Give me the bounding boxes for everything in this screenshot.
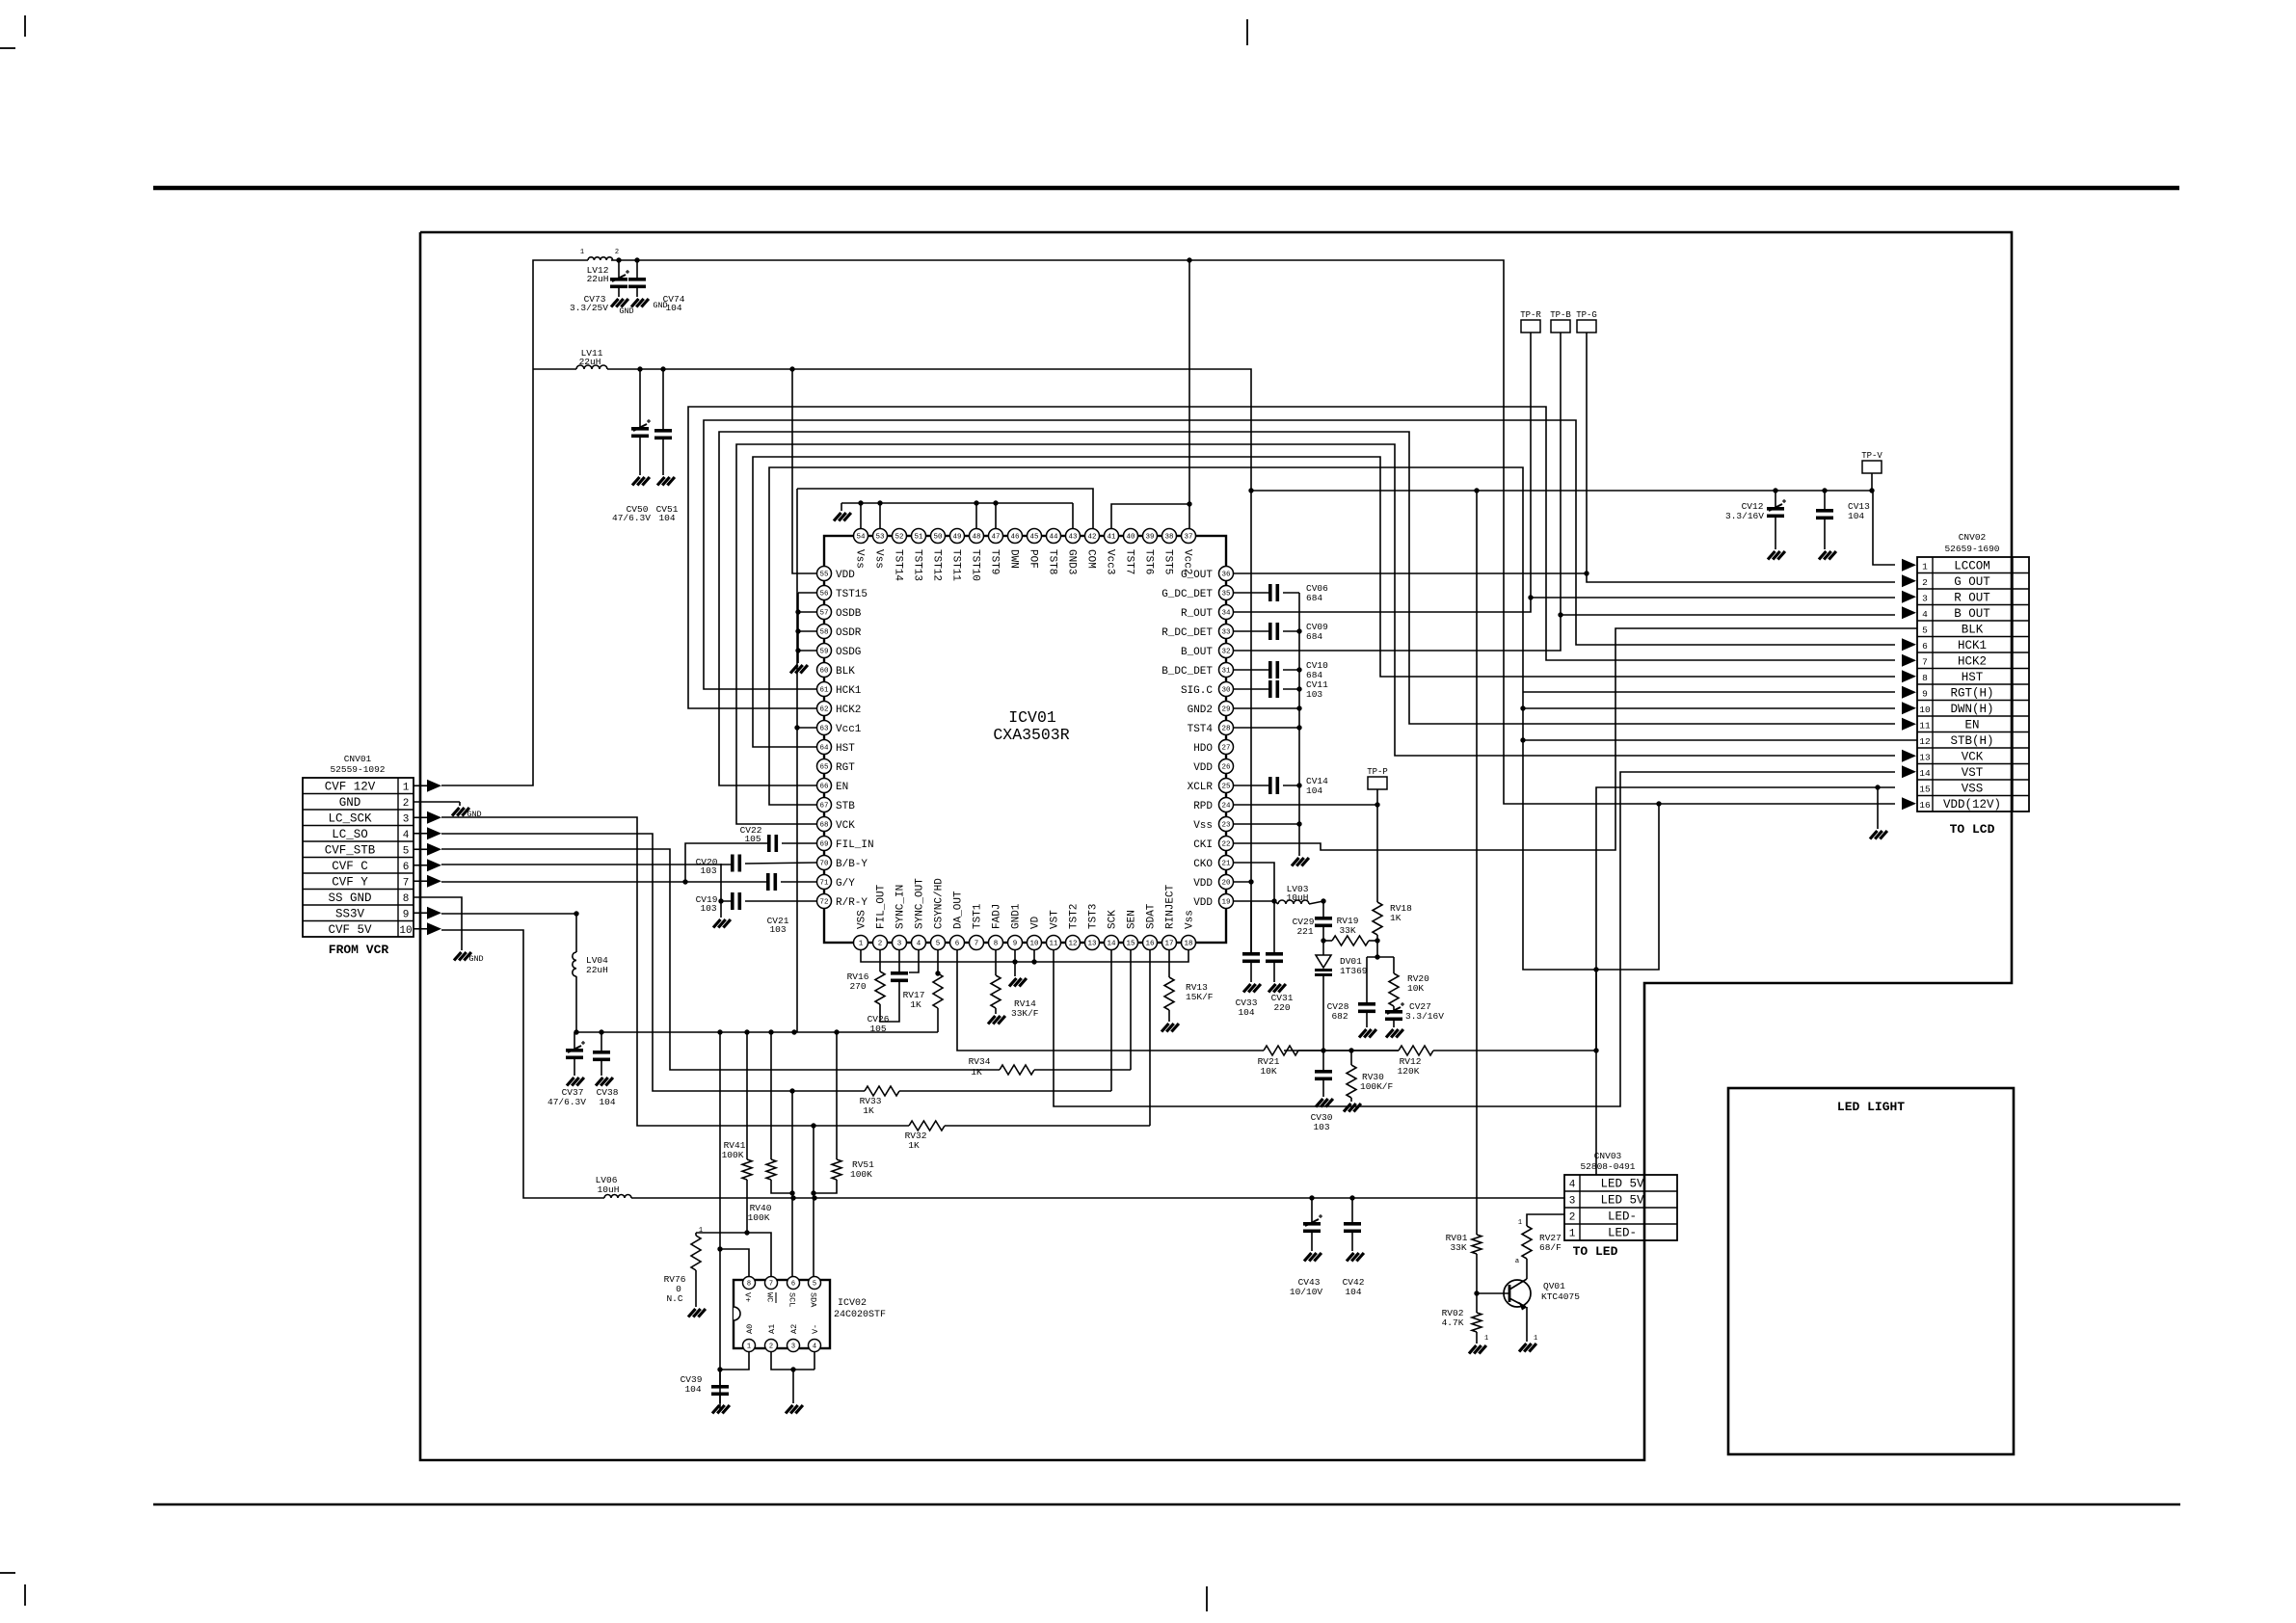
- svg-text:1K: 1K: [863, 1105, 874, 1116]
- svg-text:CSYNC/HD: CSYNC/HD: [934, 878, 946, 929]
- svg-text:ICV02: ICV02: [838, 1298, 867, 1309]
- svg-text:12: 12: [1068, 941, 1077, 948]
- wire VDD pin20: [1234, 881, 1251, 883]
- svg-text:OSDG: OSDG: [836, 647, 861, 658]
- ground TST15 group: [790, 665, 798, 674]
- svg-text:GND: GND: [653, 301, 667, 310]
- svg-text:SCL: SCL: [788, 1292, 797, 1307]
- wire HCK2 pin62 bus: [688, 407, 1895, 708]
- svg-text:TP-V: TP-V: [1861, 451, 1882, 461]
- svg-text:16: 16: [1919, 800, 1931, 811]
- svg-text:103: 103: [700, 903, 716, 914]
- svg-text:1: 1: [1484, 1335, 1488, 1343]
- svg-text:STB: STB: [836, 801, 855, 812]
- svg-text:V-: V-: [811, 1324, 820, 1334]
- wire CVF C to B/B-Y and capacitor CV20 103: [441, 864, 731, 865]
- resistor RV13 15K/F: [1168, 950, 1170, 977]
- svg-text:3: 3: [403, 813, 410, 825]
- svg-text:52659-1690: 52659-1690: [1944, 544, 1999, 554]
- svg-text:B/B-Y: B/B-Y: [836, 859, 868, 870]
- wire CNV01 SS GND pin8 to ground: [414, 897, 462, 950]
- svg-text:VST: VST: [1050, 910, 1061, 929]
- registration tick top-center: [1246, 19, 1248, 45]
- svg-text:POF: POF: [1028, 549, 1039, 569]
- main schematic boundary box: [420, 232, 2012, 1460]
- svg-text:57: 57: [819, 610, 828, 618]
- svg-text:3.3/16V: 3.3/16V: [1725, 511, 1764, 521]
- wire Vcc1 pin63 column: [797, 489, 816, 728]
- svg-text:SYNC_OUT: SYNC_OUT: [915, 878, 926, 929]
- top rule line: [153, 186, 2179, 191]
- resistor RV30 100K/F: [1350, 1051, 1352, 1065]
- svg-text:10: 10: [1919, 705, 1931, 715]
- svg-text:1T369: 1T369: [1340, 966, 1368, 976]
- svg-text:VSS: VSS: [857, 910, 868, 929]
- svg-text:G/Y: G/Y: [836, 878, 855, 890]
- svg-text:LC_SCK: LC_SCK: [328, 811, 372, 825]
- svg-text:DWN(H): DWN(H): [1950, 703, 1993, 716]
- svg-text:A0: A0: [745, 1324, 755, 1334]
- svg-text:RINJECT: RINJECT: [1165, 884, 1177, 929]
- svg-text:SEN: SEN: [1127, 910, 1138, 929]
- svg-text:COM: COM: [1085, 549, 1097, 569]
- svg-text:4: 4: [813, 1344, 816, 1351]
- inductor LV12: [588, 257, 613, 260]
- resistor RV27 68/F: [1526, 1259, 1528, 1279]
- svg-text:Vcc3: Vcc3: [1105, 549, 1116, 574]
- svg-text:ICV01: ICV01: [1008, 708, 1056, 727]
- wire 3.3V rail LV11 net: [533, 368, 576, 370]
- svg-text:SDAT: SDAT: [1146, 903, 1158, 929]
- capacitor CV09 684 R_DC_DET: [1234, 630, 1268, 632]
- svg-text:52808-0491: 52808-0491: [1580, 1161, 1635, 1172]
- svg-text:20: 20: [1221, 880, 1231, 888]
- svg-text:4.7K: 4.7K: [1442, 1317, 1464, 1328]
- svg-text:TST2: TST2: [1069, 904, 1081, 929]
- svg-text:5: 5: [403, 845, 410, 857]
- svg-text:VCK: VCK: [836, 820, 855, 832]
- svg-text:10uH: 10uH: [598, 1184, 620, 1195]
- wire V+ column CVF5V to ICV02: [719, 1032, 721, 1411]
- svg-text:220: 220: [1273, 1002, 1290, 1013]
- svg-text:22: 22: [1221, 841, 1230, 849]
- capacitor CV19 103 and R/R-Y: [721, 864, 731, 901]
- svg-text:55: 55: [819, 572, 829, 579]
- wire 5V bus to CNV03: [631, 1197, 1565, 1199]
- resistor RV18 1K: [1373, 902, 1382, 935]
- diode DV01 1T369: [1322, 941, 1324, 955]
- resistor RV33 1K: [697, 1090, 865, 1092]
- svg-text:66: 66: [819, 784, 829, 791]
- svg-text:48: 48: [972, 534, 980, 542]
- svg-text:15: 15: [1919, 784, 1931, 794]
- svg-text:Vss: Vss: [1185, 910, 1196, 929]
- svg-text:1: 1: [580, 249, 584, 256]
- svg-text:TST13: TST13: [912, 549, 923, 581]
- svg-text:32: 32: [1221, 649, 1230, 656]
- wire HCK1 pin61 bus: [704, 420, 1895, 689]
- svg-text:SCK: SCK: [1108, 910, 1119, 929]
- svg-text:10K: 10K: [1407, 983, 1424, 994]
- svg-text:1: 1: [747, 1344, 751, 1351]
- svg-text:CKI: CKI: [1193, 839, 1213, 851]
- wire LCCOM column to RV01: [1476, 491, 1478, 1235]
- svg-text:4: 4: [403, 830, 410, 841]
- svg-text:RV34: RV34: [969, 1056, 991, 1067]
- svg-text:67: 67: [819, 803, 828, 811]
- svg-text:TST3: TST3: [1088, 904, 1100, 929]
- svg-text:10: 10: [399, 925, 412, 937]
- svg-text:11: 11: [1049, 941, 1058, 948]
- svg-text:VSS: VSS: [1962, 782, 1984, 795]
- svg-text:9: 9: [1922, 688, 1928, 699]
- resistor RV41 100K: [746, 1032, 748, 1159]
- svg-text:1: 1: [859, 941, 864, 948]
- wire VCK pin68 bus: [736, 444, 1895, 824]
- svg-text:104: 104: [665, 303, 681, 313]
- svg-text:24C020STF: 24C020STF: [834, 1310, 886, 1320]
- svg-text:58: 58: [819, 629, 828, 637]
- svg-text:LED LIGHT: LED LIGHT: [1837, 1100, 1905, 1114]
- capacitor CV43 10/10V: [1311, 1198, 1313, 1222]
- svg-text:TST14: TST14: [893, 549, 904, 581]
- IC ICV01 CXA3503R body: [824, 536, 1226, 943]
- svg-text:270: 270: [849, 981, 866, 992]
- wire FIL_IN net and capacitor CV22 105: [782, 842, 816, 844]
- svg-text:A1: A1: [767, 1324, 777, 1334]
- svg-text:7: 7: [1922, 656, 1928, 667]
- svg-text:VDD: VDD: [1193, 878, 1213, 890]
- svg-text:VDD: VDD: [836, 570, 855, 581]
- svg-text:14: 14: [1107, 941, 1116, 948]
- wire ICV02 pin7 WC net: [696, 1233, 771, 1283]
- svg-text:21: 21: [1221, 861, 1231, 868]
- resistor RV01 33K: [1472, 1235, 1482, 1254]
- svg-text:TP-G: TP-G: [1576, 310, 1597, 320]
- svg-text:FROM VCR: FROM VCR: [329, 943, 389, 957]
- wire ICV02 pin1 to CV39 net: [720, 1351, 749, 1370]
- svg-text:G_DC_DET: G_DC_DET: [1161, 589, 1213, 600]
- svg-text:10/10V: 10/10V: [1290, 1287, 1323, 1297]
- svg-text:HST: HST: [836, 743, 855, 755]
- ground RV14: [988, 1016, 996, 1024]
- svg-text:39: 39: [1145, 534, 1154, 542]
- svg-text:OSDR: OSDR: [836, 627, 862, 639]
- wire CKI pin22 to BLK row: [1234, 628, 1917, 850]
- wire SDA column: [813, 1125, 814, 1283]
- svg-text:HDO: HDO: [1193, 743, 1213, 755]
- svg-text:STB(H): STB(H): [1950, 734, 1993, 748]
- svg-text:BLK: BLK: [1962, 623, 1984, 636]
- svg-text:2: 2: [615, 249, 619, 256]
- svg-text:SIG.C: SIG.C: [1181, 685, 1213, 697]
- capacitor CV51: [662, 369, 664, 429]
- svg-text:44: 44: [1049, 534, 1058, 542]
- svg-text:LED 5V: LED 5V: [1600, 1194, 1644, 1208]
- svg-text:QV01: QV01: [1543, 1281, 1565, 1291]
- svg-text:49: 49: [952, 534, 961, 542]
- svg-text:33K/F: 33K/F: [1011, 1008, 1039, 1019]
- svg-text:RPD: RPD: [1193, 801, 1213, 812]
- resistor RV51 100K: [836, 1032, 838, 1159]
- capacitor CV13 104: [1824, 491, 1826, 509]
- svg-text:CVF Y: CVF Y: [332, 875, 368, 889]
- svg-text:LED-: LED-: [1608, 1211, 1637, 1224]
- svg-text:LED 5V: LED 5V: [1600, 1178, 1644, 1191]
- svg-text:43: 43: [1068, 534, 1078, 542]
- svg-text:52: 52: [894, 534, 903, 542]
- capacitor CV42 104: [1351, 1198, 1353, 1222]
- svg-text:52559-1092: 52559-1092: [330, 764, 385, 775]
- svg-text:GND: GND: [468, 954, 483, 964]
- wire RV18 node split: [1367, 956, 1394, 958]
- svg-text:B_OUT: B_OUT: [1181, 647, 1213, 658]
- svg-text:72: 72: [819, 899, 828, 907]
- svg-text:104: 104: [1238, 1007, 1254, 1018]
- svg-text:71: 71: [819, 880, 829, 888]
- svg-text:38: 38: [1164, 534, 1173, 542]
- svg-text:40: 40: [1126, 534, 1135, 542]
- svg-text:54: 54: [856, 534, 866, 542]
- capacitor CV50: [639, 369, 641, 427]
- ground QV01: [1519, 1344, 1527, 1352]
- wire STB pin67 bus to RGT DWN STB tie column: [769, 467, 1659, 970]
- bottom rule line: [153, 1503, 2180, 1506]
- capacitor CV74: [636, 260, 638, 278]
- svg-text:8: 8: [994, 941, 999, 948]
- svg-text:TO LED: TO LED: [1573, 1244, 1618, 1259]
- svg-text:6: 6: [403, 862, 410, 873]
- wire right ground column: [1298, 593, 1300, 856]
- wire 3.3V top bus to LCCOM: [1251, 491, 1895, 565]
- svg-text:23: 23: [1221, 822, 1231, 830]
- wire G_OUT pin36 to TP-G and G OUT: [1234, 573, 1895, 582]
- capacitor CV06 684 G_DC_DET: [1234, 592, 1268, 594]
- svg-text:1K: 1K: [910, 999, 921, 1010]
- wire RGT(H) DWN(H) STB(H) rows tie: [1523, 691, 1895, 693]
- svg-text:5: 5: [1922, 625, 1928, 635]
- IC ICV01 right pins 36-19: [1219, 567, 1234, 581]
- svg-text:DA_OUT: DA_OUT: [953, 891, 965, 929]
- wire SYNC_OUT pin4 stub: [909, 950, 919, 972]
- svg-text:13: 13: [1087, 941, 1097, 948]
- svg-text:18: 18: [1184, 941, 1192, 948]
- svg-text:11: 11: [1919, 720, 1931, 731]
- svg-text:5: 5: [813, 1281, 816, 1289]
- svg-text:684: 684: [1306, 593, 1322, 603]
- IC ICV02 24C020STF: [734, 1280, 830, 1348]
- capacitor CV10 684 B_DC_DET: [1234, 669, 1268, 671]
- svg-text:22uH: 22uH: [579, 357, 601, 367]
- svg-text:HCK1: HCK1: [836, 685, 862, 697]
- resistor RV17 1K: [937, 950, 939, 973]
- svg-text:9: 9: [403, 909, 410, 920]
- svg-text:104: 104: [599, 1097, 615, 1107]
- svg-text:HCK2: HCK2: [1958, 654, 1987, 668]
- svg-text:100K: 100K: [850, 1169, 872, 1180]
- svg-text:104: 104: [684, 1384, 701, 1395]
- svg-text:GND2: GND2: [1188, 705, 1213, 716]
- svg-text:SS3V: SS3V: [335, 907, 365, 920]
- capacitor CV30 103: [1322, 1051, 1324, 1070]
- svg-text:B OUT: B OUT: [1954, 607, 1990, 621]
- svg-text:61: 61: [819, 687, 829, 695]
- wire ICV02 pin8 V+ feed: [720, 1249, 749, 1283]
- wire bottom Vss bus: [861, 950, 1188, 962]
- svg-text:10: 10: [1029, 941, 1039, 948]
- svg-text:VD: VD: [1030, 916, 1042, 929]
- svg-text:19: 19: [1221, 899, 1230, 907]
- svg-text:7: 7: [769, 1281, 773, 1289]
- inductor LV06: [604, 1195, 631, 1198]
- ground ICV02: [786, 1405, 793, 1414]
- svg-text:30: 30: [1221, 687, 1231, 695]
- ground CV19: [713, 919, 721, 928]
- svg-text:46: 46: [1010, 534, 1020, 542]
- resistor RV34 1K: [726, 1069, 1000, 1071]
- svg-text:V+: V+: [743, 1292, 753, 1302]
- svg-text:47/6.3V: 47/6.3V: [612, 513, 651, 523]
- ground RV76: [688, 1309, 696, 1317]
- svg-text:2: 2: [403, 798, 410, 810]
- wire LED5V row4 feed: [1595, 970, 1597, 1175]
- svg-text:Vcc1: Vcc1: [836, 724, 862, 735]
- svg-text:CXA3503R: CXA3503R: [993, 726, 1069, 744]
- capacitor CV26 105: [898, 950, 900, 971]
- svg-text:VST: VST: [1962, 766, 1984, 780]
- svg-text:WC: WC: [765, 1292, 775, 1302]
- svg-text:50: 50: [933, 534, 943, 542]
- svg-text:N.C: N.C: [666, 1293, 682, 1304]
- capacitor CV14 104 XCLR: [1234, 785, 1268, 786]
- svg-text:3.3/25V: 3.3/25V: [570, 303, 608, 313]
- svg-text:CVF C: CVF C: [332, 860, 368, 873]
- svg-text:TST12: TST12: [931, 549, 943, 581]
- svg-text:53: 53: [875, 534, 885, 542]
- svg-text:SDA: SDA: [809, 1292, 818, 1308]
- transistor QV01 KTC4075: [1477, 1292, 1509, 1294]
- svg-text:VDD: VDD: [1193, 897, 1213, 909]
- svg-text:1: 1: [1569, 1229, 1576, 1240]
- capacitor CV12 3.3/16V: [1775, 491, 1776, 507]
- svg-text:25: 25: [1221, 784, 1231, 791]
- ground CV39: [712, 1405, 720, 1414]
- svg-text:EN: EN: [1964, 718, 1979, 732]
- ground right column: [1292, 858, 1299, 866]
- wire Vss pin23 to ground column: [1234, 823, 1299, 825]
- svg-text:104: 104: [1848, 511, 1864, 521]
- wire LC_SO bus: [441, 834, 697, 1091]
- wire SCL column: [791, 1091, 793, 1283]
- svg-text:105: 105: [744, 834, 761, 844]
- registration tick bottom-left: [24, 1584, 26, 1606]
- svg-text:DWN: DWN: [1008, 549, 1020, 569]
- wire EN pin66 bus: [719, 432, 1895, 785]
- svg-text:BLK: BLK: [836, 666, 855, 678]
- svg-text:16: 16: [1145, 941, 1155, 948]
- svg-text:CNV01: CNV01: [344, 754, 372, 764]
- wire CVF 5V to LV06: [441, 930, 604, 1198]
- svg-text:OSDB: OSDB: [836, 608, 862, 620]
- wire R_OUT pin34 to R OUT row: [1234, 598, 1895, 612]
- svg-text:47/6.3V: 47/6.3V: [547, 1097, 586, 1107]
- svg-text:64: 64: [819, 745, 829, 753]
- svg-text:33: 33: [1221, 629, 1231, 637]
- ground top Vss tie: [834, 513, 841, 521]
- svg-text:15K/F: 15K/F: [1186, 992, 1214, 1002]
- svg-text:TST9: TST9: [989, 549, 1001, 574]
- svg-text:TST4: TST4: [1188, 724, 1214, 735]
- svg-text:28: 28: [1221, 726, 1230, 733]
- resistor RV32 1K: [662, 1125, 909, 1127]
- wire GND2 TST4 to ground column: [1234, 707, 1299, 709]
- svg-text:65: 65: [819, 764, 829, 772]
- svg-text:8: 8: [1922, 673, 1928, 683]
- svg-text:1K: 1K: [1390, 913, 1402, 923]
- svg-text:1: 1: [1922, 561, 1928, 572]
- svg-text:EN: EN: [836, 782, 848, 793]
- svg-text:105: 105: [869, 1024, 886, 1034]
- capacitor CV38: [601, 1032, 602, 1051]
- wire ICV02 pins 2-4 ground net: [771, 1351, 814, 1370]
- svg-text:36: 36: [1221, 572, 1231, 579]
- CNV01 pin arrows: [414, 785, 427, 786]
- svg-text:100K: 100K: [722, 1150, 744, 1160]
- svg-text:29: 29: [1221, 706, 1230, 714]
- svg-text:VDD(12V): VDD(12V): [1943, 798, 2001, 811]
- svg-text:GND3: GND3: [1066, 549, 1078, 574]
- wire CVF Y to G/Y and capacitor CV21 103: [441, 881, 766, 883]
- svg-text:CKO: CKO: [1193, 859, 1213, 870]
- svg-text:14: 14: [1919, 768, 1931, 779]
- svg-text:1: 1: [403, 782, 410, 793]
- wire QV01 emitter to ground: [1526, 1307, 1528, 1342]
- svg-text:104: 104: [1306, 785, 1322, 796]
- svg-text:TST11: TST11: [950, 549, 962, 581]
- svg-text:GND: GND: [339, 796, 361, 810]
- svg-text:Vss: Vss: [1193, 820, 1213, 832]
- svg-text:G OUT: G OUT: [1954, 575, 1990, 589]
- svg-text:8: 8: [403, 893, 410, 905]
- wire COM pin42 riser to Vcc1 bus: [797, 489, 1093, 528]
- svg-text:VCK: VCK: [1962, 750, 1984, 763]
- resistor RV12 120K: [1399, 1046, 1433, 1055]
- svg-text:41: 41: [1107, 534, 1116, 542]
- IC ICV01 bottom pins 1-18: [854, 936, 868, 950]
- ground CNV01 pin2: [452, 808, 460, 816]
- svg-text:2: 2: [1922, 577, 1928, 588]
- svg-text:3: 3: [791, 1344, 795, 1351]
- wire analog line RV21 RV12: [1284, 1050, 1399, 1051]
- ground RV02: [1469, 1345, 1477, 1354]
- svg-text:221: 221: [1296, 926, 1313, 937]
- capacitor CV73: [618, 260, 620, 278]
- svg-text:103: 103: [1306, 689, 1322, 700]
- svg-text:4: 4: [1922, 609, 1928, 620]
- svg-text:68: 68: [819, 822, 828, 830]
- ground CNV01 pin8: [454, 952, 462, 961]
- wire RPD pin24 to TP-P and RV18: [1234, 804, 1377, 806]
- svg-text:33K: 33K: [1450, 1242, 1466, 1253]
- inductor LV04: [573, 952, 576, 976]
- resistor RV21 10K: [1264, 1046, 1298, 1055]
- resistor RV14 33K/F: [995, 950, 997, 975]
- svg-text:62: 62: [819, 706, 828, 714]
- svg-text:17: 17: [1164, 941, 1173, 948]
- svg-text:7: 7: [974, 941, 979, 948]
- svg-text:47: 47: [991, 534, 1000, 542]
- resistor RV16 270: [879, 950, 881, 971]
